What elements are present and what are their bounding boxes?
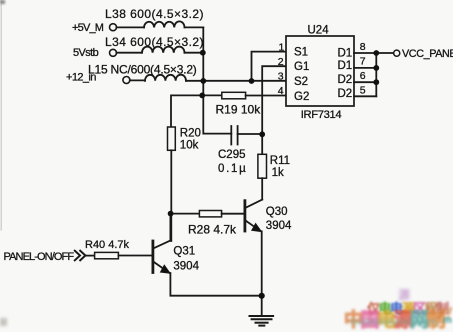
svg-text:L38 600(4.5×3.2): L38 600(4.5×3.2) — [105, 7, 204, 21]
svg-text:4: 4 — [278, 85, 284, 97]
svg-text:+12_in: +12_in — [66, 71, 96, 83]
watermark faint purple char — [398, 286, 410, 303]
wire pin 5 D2 — [354, 95, 376, 97]
wire R28 right to Q30 base — [222, 213, 244, 215]
watermark cn suffix — [443, 315, 452, 326]
IC U24 box — [286, 36, 354, 106]
svg-text:10k: 10k — [180, 139, 199, 151]
wire — [185, 52, 204, 54]
svg-text:1: 1 — [279, 41, 285, 53]
inductor L34 — [142, 47, 185, 53]
wire bus vertical — [202, 27, 204, 95]
wire pin2 G1 branch — [262, 66, 286, 134]
junction node S1/S2 — [249, 78, 255, 84]
svg-text:G1: G1 — [294, 61, 309, 73]
svg-text:IRF7314: IRF7314 — [301, 109, 342, 121]
transistor Q31 — [153, 241, 170, 274]
junction node row2/bus — [200, 50, 206, 56]
svg-text:G2: G2 — [294, 91, 309, 103]
wire pin1 S1 branch — [252, 52, 287, 81]
wire right pins vertical — [375, 53, 377, 96]
wire ground lead — [261, 296, 263, 316]
decorative left edge line — [0, 0, 2, 230]
wire — [185, 26, 204, 28]
terminal +12_in — [123, 77, 130, 84]
svg-text:Q31: Q31 — [173, 246, 195, 258]
svg-text:6: 6 — [360, 70, 366, 82]
svg-text:S1: S1 — [294, 46, 308, 58]
inductor L15 — [145, 75, 186, 81]
watermark colored row 2 — [344, 305, 443, 332]
junction node bus/R19/R20/C295 — [199, 93, 205, 99]
svg-text:5: 5 — [360, 84, 366, 96]
watermark colored row 1 — [367, 298, 448, 317]
svg-text:8: 8 — [360, 41, 366, 53]
terminal +5V_M — [110, 24, 117, 31]
svg-text:7: 7 — [360, 56, 366, 68]
svg-text:R11: R11 — [270, 155, 290, 167]
junction node pin8 — [373, 50, 379, 56]
wire Q31 collector up — [169, 214, 171, 241]
svg-text:3904: 3904 — [173, 260, 199, 272]
wire C295 right — [238, 133, 263, 135]
junction node emitter/ground — [259, 293, 265, 299]
svg-text:U24: U24 — [308, 24, 330, 36]
junction node pin6 — [373, 79, 379, 85]
svg-text:2: 2 — [278, 56, 284, 68]
svg-text:R28 4.7k: R28 4.7k — [188, 222, 237, 236]
wire — [116, 26, 144, 28]
resistor R19 — [222, 92, 246, 99]
svg-text:D2: D2 — [338, 88, 353, 100]
svg-text:S2: S2 — [294, 76, 308, 88]
svg-text:+5V_M: +5V_M — [72, 22, 104, 34]
wire pin 7 D1 — [354, 67, 376, 69]
wire R11 bottom to Q30 collector — [261, 178, 263, 199]
svg-text:PANEL-ON/OFF: PANEL-ON/OFF — [4, 251, 75, 263]
wire S2 row to IC pin 3 — [186, 80, 286, 82]
svg-text:R19 10k: R19 10k — [216, 102, 262, 116]
svg-text:D1: D1 — [338, 60, 353, 72]
svg-text:L34 600(4.5×3.2): L34 600(4.5×3.2) — [105, 35, 204, 49]
svg-text:D1: D1 — [338, 48, 353, 60]
svg-text:R40 4.7k: R40 4.7k — [85, 239, 130, 251]
svg-text:5Vstb: 5Vstb — [73, 47, 99, 59]
terminal 5Vstb — [110, 49, 117, 56]
ground — [250, 316, 274, 326]
svg-text:VCC_PANEL: VCC_PANEL — [402, 48, 453, 60]
resistor R40 — [95, 252, 119, 258]
watermark bottom teal streak — [350, 320, 438, 324]
wire R19 right to pin 4 G2 — [246, 95, 286, 97]
wire — [130, 79, 145, 81]
svg-text:3: 3 — [278, 70, 284, 82]
wire pin 8 D1 to VCC_PANEL — [354, 52, 394, 54]
svg-text:R20: R20 — [180, 128, 201, 140]
wire — [116, 52, 142, 54]
wire pin 6 D2 — [354, 81, 376, 83]
terminal VCC_PANEL — [394, 50, 400, 56]
watermark slanted mark — [434, 300, 453, 324]
wire R20 top — [171, 95, 202, 127]
svg-text:1k: 1k — [272, 167, 284, 179]
wire R40 to Q31 base — [118, 255, 152, 257]
resistor R28 — [199, 211, 221, 217]
wire Q30 emitter down — [261, 231, 263, 295]
svg-text:D2: D2 — [338, 74, 353, 86]
svg-text:3904: 3904 — [266, 220, 292, 232]
resistor R20 — [168, 127, 176, 150]
svg-text:C295: C295 — [218, 149, 246, 161]
corner mark bottom-left — [0, 318, 7, 326]
junction node row3/bus — [200, 78, 206, 84]
svg-text:0.1µ: 0.1µ — [218, 163, 247, 175]
corner mark top-left — [0, 0, 5, 4]
wire C295 left — [203, 95, 231, 133]
wire chevron to R40 — [85, 255, 95, 257]
wire R11 top — [261, 134, 263, 154]
wire Q31 emitter down and bottom rail — [170, 273, 261, 296]
capacitor C295 — [231, 126, 237, 145]
resistor R11 — [258, 154, 267, 178]
transistor Q30 — [245, 200, 262, 232]
svg-text:L15 NC/600(4.5×3.2): L15 NC/600(4.5×3.2) — [88, 63, 197, 77]
junction node pin7 — [373, 65, 379, 71]
wire R19 left — [203, 94, 222, 96]
junction node R20/R28/Q31 collector — [168, 211, 174, 217]
inductor L38 — [144, 21, 185, 27]
wire R28 left — [171, 213, 199, 215]
svg-text:Q30: Q30 — [266, 206, 288, 218]
input chevron PANEL-ON/OFF — [75, 251, 86, 261]
junction node G1/C295/R11 — [259, 131, 265, 137]
wire R20 bottom — [170, 150, 172, 241]
